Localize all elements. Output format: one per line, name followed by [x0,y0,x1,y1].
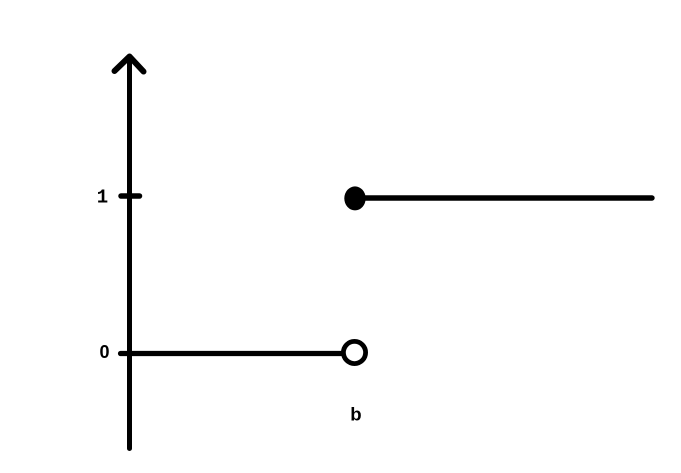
y-axis [127,57,132,449]
svg-text:b: b [350,404,361,425]
svg-text:1: 1 [97,187,108,209]
node: filled dot at (b,1) [344,186,365,210]
svg-text:0: 0 [100,342,110,362]
node: open circle at (b,0) [343,341,365,363]
wire: lower segment y=0 [121,351,344,356]
tick mark at y=1 [121,193,140,199]
y-axis arrowhead [115,57,144,72]
wire: upper segment y=1 [360,195,652,200]
